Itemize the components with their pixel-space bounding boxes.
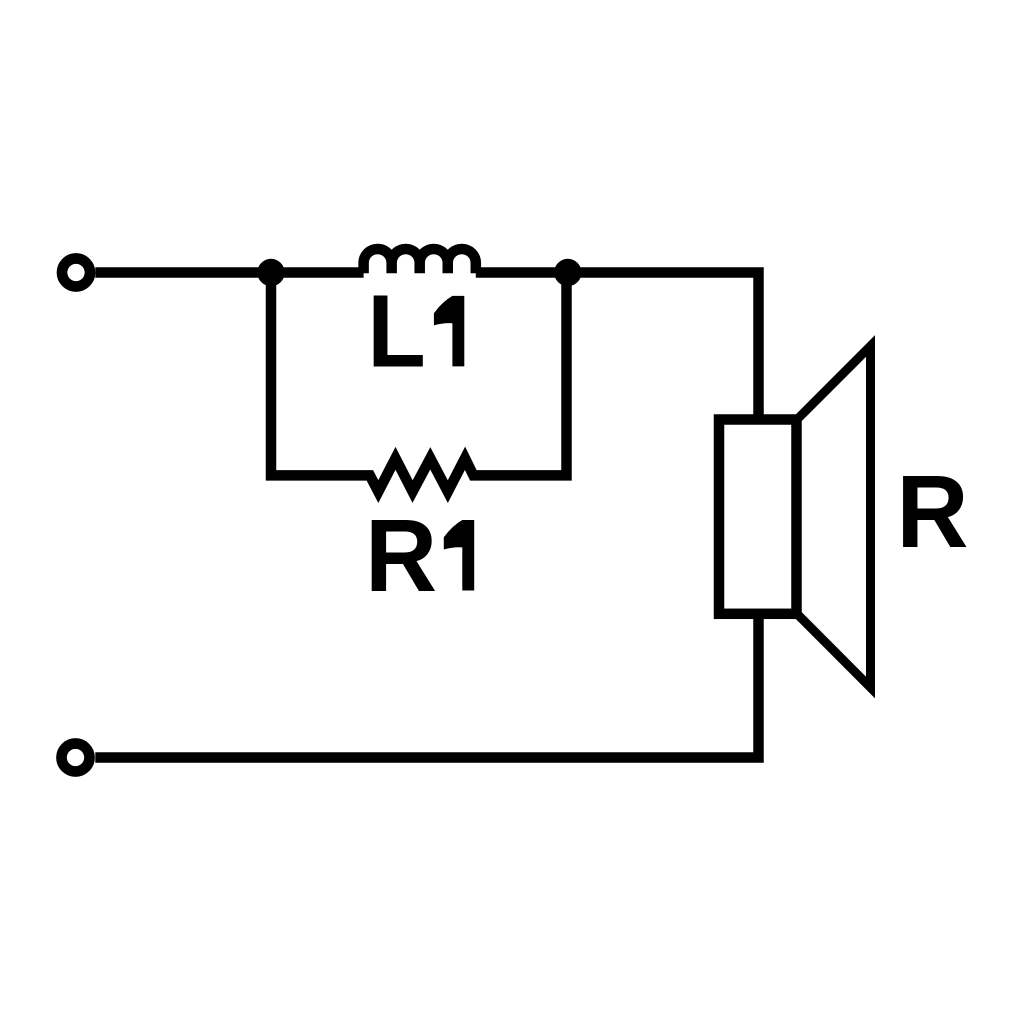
svg-text:R: R	[896, 454, 968, 570]
inductor L1	[364, 249, 476, 273]
terminal T2 (bottom-left input)	[62, 744, 90, 772]
svg-text:L: L	[367, 274, 426, 389]
node B (junction dot right)	[554, 259, 581, 286]
speaker horn	[797, 346, 871, 688]
terminal T1 (top-left input)	[62, 259, 90, 287]
svg-text:R: R	[365, 498, 437, 614]
node A (junction dot left)	[257, 259, 284, 286]
wire top-left: terminal to inductor	[95, 267, 363, 278]
label L1	[367, 274, 464, 389]
speaker driver rectangle	[719, 420, 797, 614]
wire parallel branch with resistor R1	[271, 267, 567, 491]
wire bottom: speaker to terminal	[95, 614, 758, 758]
wire top-right: inductor to corner, down to speaker	[476, 273, 759, 421]
label R1	[365, 498, 474, 614]
